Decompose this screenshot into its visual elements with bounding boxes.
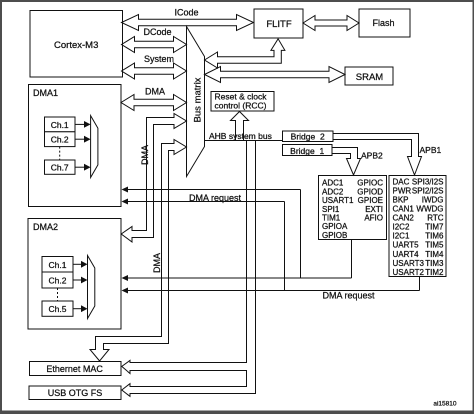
svg-text:Flash: Flash bbox=[372, 18, 394, 28]
DMA1 ch.2 arrow to mux bbox=[75, 136, 91, 143]
SRAM double arrow bbox=[205, 67, 346, 83]
svg-text:GPIOA: GPIOA bbox=[322, 222, 348, 231]
DMA1 bus double arrow bbox=[121, 95, 187, 111]
DMA2 ch.1 arrow to mux bbox=[73, 261, 88, 268]
svg-text:IWDG: IWDG bbox=[422, 196, 444, 205]
svg-text:Bus matrix: Bus matrix bbox=[193, 77, 204, 122]
svg-text:Ch.1: Ch.1 bbox=[51, 120, 69, 130]
FLITF-Flash double arrow bbox=[303, 16, 359, 31]
svg-text:TIM4: TIM4 bbox=[425, 250, 444, 259]
DMA request wire APB1 to DMA2 bbox=[122, 277, 420, 294]
svg-text:I2C2: I2C2 bbox=[393, 223, 410, 232]
Reset & clock control (RCC) box bbox=[211, 92, 274, 112]
AHB to Ethernet MAC / USB OTG FS hollow tree bbox=[122, 141, 256, 397]
svg-text:ICode: ICode bbox=[174, 8, 198, 18]
svg-text:DAC: DAC bbox=[393, 177, 410, 186]
FLITF box bbox=[254, 9, 303, 38]
svg-text:FLITF: FLITF bbox=[266, 19, 292, 30]
svg-text:TIM7: TIM7 bbox=[425, 223, 444, 232]
Bridge 1 box bbox=[283, 145, 333, 156]
svg-text:TIM1: TIM1 bbox=[322, 214, 341, 223]
svg-text:TIM3: TIM3 bbox=[425, 259, 444, 268]
APB2 peripherals box bbox=[319, 176, 387, 240]
DMA1 controller box bbox=[29, 85, 122, 207]
DMA2 bus elbow arrow (DMA2 to bus matrix) bbox=[121, 114, 186, 243]
svg-text:AHB system bus: AHB system bus bbox=[209, 131, 272, 141]
DMA1 channel mux bbox=[91, 116, 98, 178]
DMA request wire APB1 to DMA1 bbox=[122, 199, 285, 291]
ICode bus double arrow bbox=[122, 15, 254, 31]
DMA1 ch.1 arrow to mux bbox=[75, 121, 91, 128]
svg-text:PWR: PWR bbox=[393, 186, 412, 195]
svg-text:Ethernet MAC: Ethernet MAC bbox=[46, 364, 103, 374]
svg-text:Ch.1: Ch.1 bbox=[49, 260, 67, 270]
svg-text:APB1: APB1 bbox=[420, 145, 442, 155]
svg-text:GPIOB: GPIOB bbox=[322, 231, 347, 240]
svg-text:USART3: USART3 bbox=[393, 259, 425, 268]
Bridge 2 box bbox=[283, 131, 334, 142]
DMA2 channel mux bbox=[88, 256, 95, 319]
svg-text:USART2: USART2 bbox=[393, 268, 425, 277]
Ethernet MAC box bbox=[30, 362, 122, 376]
DMA2 channel Ch.1 bbox=[42, 257, 73, 273]
svg-text:GPIOE: GPIOE bbox=[358, 196, 383, 205]
DMA2 ch.2 arrow to mux bbox=[73, 277, 88, 284]
svg-text:AFIO: AFIO bbox=[364, 214, 383, 223]
svg-text:Ch.2: Ch.2 bbox=[49, 275, 67, 285]
DMA2 channel Ch.5 bbox=[42, 301, 73, 316]
APB1 peripherals box bbox=[389, 176, 446, 277]
svg-text:RTC: RTC bbox=[427, 214, 444, 223]
svg-text:SPI2/I2S: SPI2/I2S bbox=[412, 186, 444, 195]
svg-text:USART1: USART1 bbox=[322, 196, 354, 205]
Cortex-M3 CPU box bbox=[30, 11, 123, 78]
svg-text:WWDG: WWDG bbox=[416, 205, 443, 214]
Bridge 2 to APB1 hollow arrow bbox=[333, 134, 422, 176]
svg-text:control (RCC): control (RCC) bbox=[215, 100, 267, 110]
svg-text:SPI3/I2S: SPI3/I2S bbox=[412, 177, 444, 186]
DMA2 ch.5 arrow to mux bbox=[73, 305, 88, 312]
RCC up arrow from AHB bus bbox=[231, 112, 249, 141]
DMA1 channel Ch.2 bbox=[45, 132, 76, 147]
DMA1 dotted channel continuation bbox=[59, 147, 61, 160]
Bridge 1 to APB2 hollow arrow bbox=[332, 148, 361, 176]
svg-text:DMA: DMA bbox=[140, 145, 150, 165]
DMA1 ch.7 arrow to mux bbox=[75, 164, 91, 171]
svg-text:ADC1: ADC1 bbox=[322, 179, 344, 188]
svg-text:UART4: UART4 bbox=[393, 250, 420, 259]
svg-text:DMA: DMA bbox=[145, 86, 165, 96]
svg-text:DMA2: DMA2 bbox=[33, 222, 58, 232]
svg-text:GPIOC: GPIOC bbox=[357, 179, 383, 188]
svg-text:Ch.7: Ch.7 bbox=[51, 163, 69, 173]
svg-text:ADC2: ADC2 bbox=[322, 187, 344, 196]
svg-text:I2C1: I2C1 bbox=[393, 232, 410, 241]
svg-text:ai15810: ai15810 bbox=[433, 401, 457, 408]
svg-text:DMA request: DMA request bbox=[323, 291, 376, 301]
DMA1 channel Ch.1 bbox=[45, 117, 76, 132]
Ethernet bus elbow arrow (Ethernet MAC to bus matrix) bbox=[90, 140, 187, 362]
svg-text:Ch.5: Ch.5 bbox=[49, 304, 67, 314]
svg-text:DCode: DCode bbox=[143, 27, 171, 37]
svg-text:EXTI: EXTI bbox=[365, 205, 383, 214]
DMA request wire APB2 to DMA2 bbox=[122, 240, 352, 282]
svg-text:TIM6: TIM6 bbox=[425, 232, 444, 241]
svg-text:TIM5: TIM5 bbox=[425, 241, 444, 250]
svg-text:CAN2: CAN2 bbox=[393, 214, 415, 223]
svg-text:DMA1: DMA1 bbox=[33, 88, 58, 98]
System bus double arrow bbox=[122, 63, 187, 79]
SRAM box bbox=[345, 67, 393, 85]
svg-text:SPI1: SPI1 bbox=[322, 205, 340, 214]
FLITF elbow double arrow (bus matrix to FLITF) bbox=[205, 39, 285, 68]
DMA2 controller box bbox=[28, 219, 121, 330]
bus matrix bbox=[187, 27, 205, 177]
DMA2 dotted channel continuation bbox=[57, 288, 59, 301]
svg-text:USB OTG FS: USB OTG FS bbox=[48, 388, 103, 398]
AHB system bus line bbox=[205, 140, 283, 142]
svg-text:UART5: UART5 bbox=[393, 241, 420, 250]
svg-text:DMA: DMA bbox=[152, 253, 162, 273]
svg-text:Bridge 2: Bridge 2 bbox=[291, 132, 325, 142]
DMA1 channel Ch.7 bbox=[45, 160, 76, 174]
DMA request wire APB2 to DMA1 bbox=[122, 187, 301, 279]
svg-text:CAN1: CAN1 bbox=[393, 205, 415, 214]
svg-text:SRAM: SRAM bbox=[356, 72, 384, 83]
USB OTG FS box bbox=[29, 386, 121, 400]
Flash box bbox=[359, 9, 410, 37]
DCode bus double arrow bbox=[122, 37, 187, 53]
svg-text:System: System bbox=[144, 54, 174, 64]
svg-text:Cortex-M3: Cortex-M3 bbox=[54, 40, 98, 51]
svg-text:Ch.2: Ch.2 bbox=[51, 135, 69, 145]
svg-text:TIM2: TIM2 bbox=[425, 268, 444, 277]
svg-text:BKP: BKP bbox=[393, 196, 409, 205]
svg-text:Bridge 1: Bridge 1 bbox=[290, 146, 324, 156]
svg-text:DMA request: DMA request bbox=[189, 193, 242, 203]
DMA2 channel Ch.2 bbox=[42, 272, 73, 288]
svg-text:APB2: APB2 bbox=[361, 151, 383, 161]
svg-text:GPIOD: GPIOD bbox=[357, 187, 383, 196]
